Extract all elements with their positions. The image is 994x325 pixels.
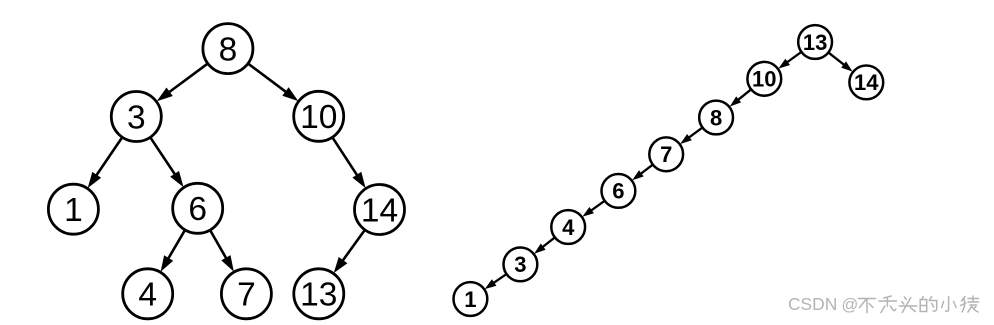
svg-text:7: 7	[237, 277, 256, 314]
svg-text:14: 14	[854, 70, 879, 95]
svg-text:@: @	[842, 296, 859, 314]
svg-text:10: 10	[752, 67, 776, 92]
svg-text:13: 13	[300, 277, 337, 314]
svg-text:CSDN: CSDN	[788, 294, 837, 314]
svg-text:4: 4	[562, 215, 575, 240]
svg-text:3: 3	[514, 252, 526, 277]
svg-text:6: 6	[612, 179, 624, 204]
svg-text:8: 8	[710, 105, 722, 130]
svg-text:4: 4	[138, 277, 157, 314]
svg-text:1: 1	[64, 192, 83, 229]
svg-text:13: 13	[803, 30, 827, 55]
svg-text:8: 8	[219, 31, 238, 68]
svg-text:3: 3	[127, 99, 146, 136]
svg-text:1: 1	[464, 287, 476, 312]
svg-text:7: 7	[660, 142, 672, 167]
svg-text:10: 10	[300, 99, 337, 136]
svg-text:14: 14	[361, 192, 398, 229]
svg-text:6: 6	[188, 191, 207, 228]
